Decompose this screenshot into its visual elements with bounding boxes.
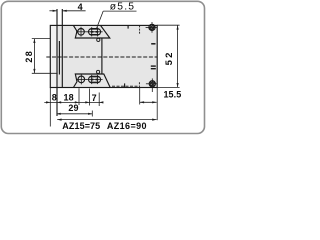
threaded hole BR bbox=[149, 81, 155, 87]
top lug bbox=[73, 25, 109, 38]
body outline bbox=[50, 25, 157, 87]
threaded hole TR bbox=[149, 24, 155, 30]
svg-text:8: 8 bbox=[52, 92, 57, 102]
hidden edge above bottom bbox=[112, 85, 139, 87]
bottom slot (hatched) bbox=[89, 76, 101, 82]
svg-text:15.5: 15.5 bbox=[163, 89, 181, 99]
dim AZ bbox=[57, 119, 156, 121]
15.5 arrows bbox=[140, 101, 144, 103]
leader line phi5.5 bbox=[96, 11, 103, 29]
dash marks right side bbox=[151, 43, 155, 45]
dim 15.5 bbox=[140, 101, 157, 103]
svg-text:AZ16=90: AZ16=90 bbox=[107, 121, 147, 131]
small pin top bbox=[97, 38, 100, 41]
left plate fill bbox=[50, 25, 57, 87]
svg-text:AZ15=75: AZ15=75 bbox=[62, 121, 100, 131]
arrowheads bbox=[33, 10, 178, 121]
vertical edge x62.3 bbox=[61, 9, 63, 88]
52 arrows bbox=[177, 25, 179, 29]
svg-text:18: 18 bbox=[63, 93, 73, 103]
body fill bbox=[50, 25, 157, 87]
vertical edge x57 bbox=[56, 9, 58, 116]
tick below top edge bbox=[127, 25, 129, 28]
dim line 4 right bbox=[62, 10, 85, 12]
4-dim arrows bbox=[53, 10, 57, 12]
row1 dims 8 18 7 bbox=[44, 101, 103, 103]
row1 arrows bbox=[46, 101, 50, 103]
29 arrows bbox=[57, 113, 61, 115]
page background bbox=[0, 0, 206, 135]
dim line 4 left bbox=[49, 10, 57, 12]
vertical edge x59.4 bbox=[58, 41, 60, 75]
svg-text:28: 28 bbox=[24, 50, 34, 63]
small pin bottom bbox=[97, 70, 100, 73]
centerline bbox=[46, 56, 157, 58]
dim 52 bbox=[177, 25, 179, 87]
hidden line bottom bbox=[138, 82, 140, 87]
leader underline phi5.5 bbox=[103, 10, 136, 12]
bottom lug hole C2 bbox=[78, 76, 85, 83]
svg-text:ø5.5: ø5.5 bbox=[110, 2, 135, 13]
svg-text:4: 4 bbox=[78, 2, 83, 12]
bottom lug bbox=[73, 74, 110, 88]
28 arrows bbox=[33, 39, 35, 43]
AZ arrows bbox=[57, 119, 61, 121]
svg-text:52: 52 bbox=[164, 50, 175, 65]
top lug hole C1 bbox=[78, 29, 85, 36]
svg-text:29: 29 bbox=[68, 103, 78, 113]
top slot (hatched) bbox=[89, 29, 101, 35]
hidden line top bbox=[139, 25, 141, 33]
dim 29 bbox=[57, 113, 93, 115]
dim 28 bbox=[33, 39, 35, 74]
rounded frame bbox=[1, 1, 204, 133]
head joint vertical x101.9 bbox=[101, 38, 103, 74]
tick above bottom edge bbox=[124, 83, 126, 87]
svg-text:7: 7 bbox=[92, 93, 97, 103]
